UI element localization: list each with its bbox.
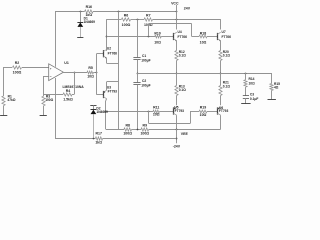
supply VCC label [171,1,179,5]
wire VEE rail left [106,129,124,131]
wire bottom base bus [106,111,153,113]
wire VCC rail right [93,11,176,13]
svg-text:10Ω: 10Ω [200,40,207,44]
node C1 C2 output tap [137,73,139,75]
svg-text:0.1μF: 0.1μF [250,97,259,101]
svg-text:R7: R7 [146,14,151,18]
svg-text:VEE: VEE [181,132,189,136]
wire R2 to op-amp + input [22,67,49,69]
wire R17 row left [55,138,95,140]
wire R15 to ground [271,91,273,100]
diode D1 [77,11,95,37]
svg-text:47kΩ: 47kΩ [7,98,15,102]
svg-text:R19: R19 [200,105,206,109]
resistor R5 [87,66,94,79]
wire bottom bus rise [190,111,192,123]
wire feedback node to R4 [43,94,63,96]
resistor R9 [140,123,149,135]
resistor R2 [13,61,22,74]
wire R10 to U4 base [161,36,173,38]
svg-text:1kΩ: 1kΩ [95,140,102,144]
wire U2 base [97,53,104,55]
wire U2 collector column [106,19,108,51]
wire R13 to U5 emitter [176,96,178,106]
node U2 collector to base bus [106,36,108,38]
svg-text:1N4669: 1N4669 [96,110,108,114]
wire output rail [137,73,272,75]
wire feedback tap up to output [74,72,76,94]
wire C2 top [137,73,139,82]
wire R20 to output rail [220,61,222,74]
svg-text:R5: R5 [88,66,93,70]
wire output rail to R13 [176,73,178,86]
svg-text:10Ω: 10Ω [154,40,161,44]
wire R12 to output rail [176,61,178,74]
transistor Q U6 [217,106,228,115]
svg-text:1N4669: 1N4669 [84,20,96,24]
resistor R6 [121,14,130,28]
svg-text:U7: U7 [222,30,226,34]
op-amp U1 part number [63,85,85,89]
wire input to R2 [4,67,12,69]
node bottom bus jog tap [148,111,150,113]
wire R11 to U5 base [159,111,173,113]
svg-text:U2: U2 [107,46,111,50]
svg-text:R10: R10 [154,32,160,36]
wire op-amp output [63,72,87,74]
wire VCC down to U4 [176,11,178,29]
ground above D2 [90,105,96,107]
resistor R17 [95,132,102,145]
svg-text:R2: R2 [15,61,20,65]
ground under R1 [0,115,7,117]
svg-text:C3: C3 [250,93,254,97]
svg-text:-24V: -24V [173,145,181,149]
wire U3 emitter jog [107,82,119,91]
svg-text:0.1Ω: 0.1Ω [223,54,231,58]
node VCC column junction [176,19,178,21]
node VEE tee [176,129,178,131]
node R14 tap [245,73,247,75]
svg-text:0.1Ω: 0.1Ω [179,88,187,92]
svg-text:100μF: 100μF [141,84,150,88]
capacitor C1 [133,54,150,62]
ground under R3 [40,115,47,117]
capacitor C2 [133,79,150,87]
svg-text:VCC: VCC [171,1,179,5]
svg-text:FT793: FT793 [175,109,185,113]
svg-text:U4: U4 [178,30,182,34]
resistor R7 [144,14,153,28]
svg-text:R4: R4 [66,89,71,93]
svg-text:R9: R9 [143,123,148,127]
svg-text:100Ω: 100Ω [140,132,149,136]
svg-text:R17: R17 [95,132,101,136]
node C1 bootstrap tap [137,19,139,21]
svg-text:FT766: FT766 [178,35,188,39]
wire op-amp V+ pin up [55,11,57,67]
wire - input down to feedback node [43,76,45,96]
svg-text:10Ω: 10Ω [87,74,94,78]
wire rail down to U7 [220,19,222,29]
resistor R8 [123,123,132,135]
ground under R15 [268,99,276,101]
node D1 tap [80,11,82,13]
supply -24V label [173,145,181,149]
wire rail corner to R15 [271,73,273,84]
wire VCC rail left [55,11,85,13]
resistor R19 [199,105,207,117]
wire R4 to feedback tap [72,94,75,96]
transistor Q U2 [103,46,117,58]
wire C1 bottom [137,60,139,73]
svg-text:R8: R8 [125,123,130,127]
svg-text:1.5kΩ: 1.5kΩ [63,98,73,102]
transistor Q U7 [217,30,231,41]
wire R1 to ground [3,106,5,116]
node feedback tap [74,72,76,74]
svg-text:0.1Ω: 0.1Ω [179,54,187,58]
node driver base junction [96,72,98,74]
svg-text:10Ω: 10Ω [200,113,207,117]
svg-text:U1: U1 [64,61,69,65]
supply 24V label [184,6,191,10]
wire top base bus [106,36,155,38]
svg-text:100Ω: 100Ω [13,71,22,75]
node C2 VEE tap [137,129,139,131]
wire driver bases vertical [96,54,98,95]
svg-text:100Ω: 100Ω [123,132,132,136]
resistor R16 [85,5,93,17]
wire R7 to VCC column [153,19,221,21]
node output rail col2 [220,73,222,75]
svg-text:100μF: 100μF [141,59,150,63]
resistor R10 [154,32,161,45]
resistor R14 [244,77,255,87]
wire op-amp V- pin down [55,78,57,138]
op-amp U1 [49,61,69,81]
wire U2 emitter jog [107,58,119,64]
ground under D1 [77,37,83,39]
resistor R12 [175,50,186,61]
resistor R15 [270,82,280,90]
node VCC tee [176,11,178,13]
node VEE R17 junction [176,138,178,140]
svg-text:R11: R11 [153,105,159,109]
node U3 collector to base bus [105,111,107,113]
wire C2 bottom [137,85,139,129]
capacitor C3 [243,93,259,102]
svg-text:10Ω: 10Ω [153,112,160,116]
wire - input [43,76,49,78]
resistor R3 [42,94,54,106]
resistor R1 [2,94,16,105]
transistor Q U5 [173,105,184,115]
node bootstrap column tap [118,11,120,13]
supply VCC tick [176,5,178,11]
wire top bus jog up [148,24,150,37]
svg-text:10Ω: 10Ω [249,81,256,85]
svg-text:FT793: FT793 [108,90,118,94]
wire C1 top [137,19,139,57]
wire top bus drop [191,24,193,37]
wire U5 collector down VEE [176,115,178,129]
resistor R4 [63,89,73,102]
svg-text:FT766: FT766 [108,52,118,56]
resistor R20 [219,50,230,61]
svg-text:R18: R18 [200,32,206,36]
node top bus jog tap [148,36,150,38]
resistor R21 [219,81,230,96]
wire R6 row left [106,19,121,21]
wire VEE rail mid [132,129,142,131]
wire R14 top [245,73,247,80]
wire emitter column [118,11,120,129]
wire bottom bus jog down [148,111,150,123]
wire input down to R1 [3,67,5,96]
wire R5 to driver bases [93,72,96,74]
resistor R11 [153,105,160,116]
resistor R13 [175,84,186,95]
wire R21 to U6 emitter [220,96,222,106]
node output rail col1 [176,73,178,75]
wire U4 emitter down [176,41,178,51]
wire U7 emitter down [220,41,222,51]
transistor Q U4 [173,30,187,41]
svg-text:24V: 24V [184,6,191,10]
wire R3 to ground [43,106,45,116]
supply VEE label [181,132,189,136]
diode D2 [91,106,108,139]
supply VEE down tick [176,129,178,143]
wire bottom bus east [149,123,191,125]
svg-text:R16: R16 [86,5,92,9]
node D2 tap [93,138,95,140]
svg-text:100Ω: 100Ω [122,23,131,27]
wire R14 to C3 [245,87,247,96]
wire U3 collector down [106,99,107,129]
wire top bus east [149,23,192,25]
svg-text:FT766: FT766 [222,35,232,39]
svg-text:+: + [50,66,52,70]
svg-text:0.1Ω: 0.1Ω [223,84,231,88]
svg-text:R6: R6 [124,14,129,18]
wire output rail to R21 [220,73,222,86]
svg-text:R14: R14 [249,77,255,81]
wire U6 collector down VEE [220,115,222,129]
resistor R18 [199,32,207,45]
wire U3 base [97,94,104,96]
ground under C3 [241,103,250,105]
wire C3 to ground [245,98,247,104]
svg-text:100Ω: 100Ω [45,98,53,102]
svg-text:−: − [50,75,52,79]
transistor Q U3 [103,86,117,99]
wire R18 wire [192,36,218,38]
svg-text:FT793: FT793 [219,109,229,113]
wire R19 wire [191,111,218,113]
wire R17 row right [103,138,177,140]
wire VEE rail right [149,129,221,131]
wire R6 to C1 node [131,19,144,21]
svg-text:4Ω: 4Ω [274,86,279,90]
